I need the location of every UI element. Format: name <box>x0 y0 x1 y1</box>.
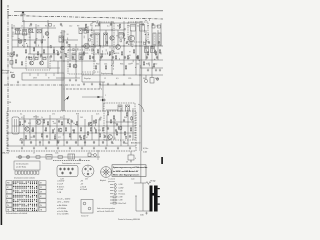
wire junction dots <box>12 28 153 134</box>
legend symbol 5 <box>110 196 123 199</box>
legend symbol 2 <box>110 187 124 190</box>
ZF sub-box coil L11 <box>118 105 122 111</box>
ground G4 <box>83 83 85 86</box>
IF transformer L2 <box>23 30 27 36</box>
ZM transistor T13 <box>58 128 62 132</box>
general note line 1 <box>97 207 115 210</box>
ground G2 <box>69 79 71 82</box>
fine component texture top band <box>12 18 161 69</box>
value list3 line 2 <box>57 208 66 210</box>
ZM label C79 <box>98 130 101 132</box>
label R38 <box>146 64 149 66</box>
box in M4 b <box>140 25 145 32</box>
svg-text:10: 10 <box>73 123 75 125</box>
battery bar 2 <box>154 186 158 212</box>
caption Potentiometer <box>62 162 80 165</box>
wire h2 <box>12 33 30 35</box>
ZM label R64 <box>124 117 127 119</box>
speaker label 08 <box>140 214 144 217</box>
svg-text:47: 47 <box>86 137 88 139</box>
switch table column line 4 <box>21 181 23 212</box>
ZM resistor R40 <box>32 127 33 132</box>
svg-text:12: 12 <box>104 78 106 80</box>
svg-text:ab Nr. -- 455kHz: ab Nr. -- 455kHz <box>57 201 69 204</box>
FM antenna A1 <box>21 11 26 22</box>
ZM capacitor C62 <box>39 141 41 144</box>
pushbutton key 1 <box>15 171 17 174</box>
label 0,5 <box>116 78 119 80</box>
wire v6 <box>47 20 49 68</box>
wire pair drop left <box>62 85 64 111</box>
ZM label R55 <box>60 117 63 119</box>
left column part a <box>10 53 13 57</box>
transistor T4 AF125 <box>84 43 90 49</box>
dial lamp wire <box>16 156 100 158</box>
label R21 <box>117 26 120 28</box>
svg-text:0,5: 0,5 <box>116 78 119 80</box>
value list2 line 1 <box>80 181 84 183</box>
wire v25 <box>157 30 159 60</box>
svg-text:im UKW- und AM-Betrieb 9V: im UKW- und AM-Betrieb 9V <box>113 170 139 173</box>
ZM filter block F1 <box>12 117 19 134</box>
resistor R10 <box>89 55 90 60</box>
speaker ground <box>145 212 147 215</box>
svg-text:C 0,1uF: C 0,1uF <box>57 183 63 185</box>
legend symbol 1 <box>110 184 123 187</box>
label L6 <box>53 26 55 28</box>
ZF resistor R71 <box>113 115 114 120</box>
ZM wire v16 <box>132 108 134 140</box>
ZF resistor R70 <box>107 111 108 116</box>
ZM transistor T14 <box>88 122 92 126</box>
value list1 line 3 <box>57 186 65 188</box>
value list2 line 3 <box>80 185 87 188</box>
ground G1 <box>17 81 19 84</box>
label Regelsp. <box>84 78 92 80</box>
label 1k <box>112 64 114 66</box>
dashed module box M2 <box>68 50 94 74</box>
ZM wire v3 <box>42 119 44 146</box>
ZM wire bus5 <box>7 145 136 147</box>
svg-text:el. 10uF: el. 10uF <box>57 189 63 191</box>
ZM resistor R49 <box>116 131 117 136</box>
label C52 <box>154 64 157 66</box>
wire h11 <box>100 59 163 61</box>
measurement note box <box>112 165 146 177</box>
tuning coil L4 <box>37 30 41 33</box>
svg-text:1k: 1k <box>112 64 114 66</box>
svg-text:gemessen: gemessen <box>108 181 115 183</box>
left column transistor T17 <box>11 74 15 78</box>
switch table column line 9 <box>32 181 34 212</box>
capacitor C8 <box>92 56 94 59</box>
top right 4ohm component <box>128 151 136 160</box>
capacitor C14 <box>156 56 158 59</box>
ZM resistor R89 <box>90 127 91 132</box>
IF transformer L7 <box>104 33 108 46</box>
switch contact row 7 dots <box>13 208 37 211</box>
svg-text:R55: R55 <box>60 117 63 119</box>
capacitor C16 <box>66 41 68 44</box>
svg-text:L: L <box>7 192 8 194</box>
switch contact row 6 dots <box>13 204 37 207</box>
speaker aux wire <box>136 196 144 212</box>
left column part b <box>10 61 13 65</box>
wire v14 <box>102 82 104 111</box>
svg-text:Werte ohne Signal gemessen: Werte ohne Signal gemessen <box>113 173 140 176</box>
wire v5 <box>41 28 43 61</box>
svg-text:1k: 1k <box>61 26 63 28</box>
svg-text:220: 220 <box>30 137 33 139</box>
ground G6 <box>99 83 101 86</box>
wire h8 <box>82 74 163 76</box>
ZM capacitor C90 <box>24 120 26 123</box>
label L9 <box>147 26 149 28</box>
label R41 <box>143 78 146 80</box>
ZM resistor R43 <box>65 127 66 132</box>
ZM capacitor C63 <box>48 141 50 144</box>
switch contact row 6 box-left <box>6 203 12 207</box>
value list2 line 2 <box>80 183 84 185</box>
ZM ground G33 <box>57 147 59 150</box>
svg-text:L6: L6 <box>53 26 55 28</box>
switch contact row 5 dots <box>13 199 37 202</box>
ZM label C77 <box>58 137 61 139</box>
ground G9 <box>123 83 125 86</box>
resistor R27 <box>125 65 126 70</box>
label Abstimmanzeige <box>2 69 10 74</box>
svg-text:1,40: 1,40 <box>131 179 134 181</box>
IF transformer L6 <box>95 33 99 46</box>
resistor R6 <box>57 51 58 56</box>
wire v26 <box>160 23 162 46</box>
wire h9 <box>82 81 105 83</box>
speaker label 140 <box>131 179 134 181</box>
ZF capacitor C82 <box>123 119 125 122</box>
wire h15 <box>56 77 80 79</box>
svg-text:Elko 10uF: Elko 10uF <box>119 203 127 205</box>
ZM transistor T16 <box>118 126 122 130</box>
ZM capacitor C68 <box>93 141 95 144</box>
svg-text:C66: C66 <box>53 123 56 125</box>
ZM label R60 <box>93 123 96 125</box>
ZM resistor R52 <box>43 119 44 124</box>
switch table outer <box>13 181 38 212</box>
ZM resistor R46 <box>87 131 88 136</box>
switch contact row 1 box-right <box>39 181 46 185</box>
switch table column line 2 <box>16 181 18 212</box>
label C8 <box>37 26 39 28</box>
main bus wire right <box>63 30 65 111</box>
series note line2 <box>57 201 69 204</box>
wire v18 <box>123 21 125 75</box>
label AF125 <box>83 52 88 55</box>
ZM ground G36 <box>93 147 95 150</box>
svg-text:R67: R67 <box>72 130 75 132</box>
label 14 mark <box>9 102 12 104</box>
pushbutton key 4 <box>24 171 26 174</box>
curve wire <box>138 104 144 112</box>
svg-text:C40: C40 <box>156 26 159 28</box>
ZM ground G38 <box>117 147 119 150</box>
switch table column line 10 <box>34 181 36 212</box>
ZM capacitor C97 <box>104 135 106 138</box>
ZF resistor R72 <box>126 112 127 117</box>
svg-text:R33: R33 <box>120 64 123 66</box>
svg-text:b 120mA: b 120mA <box>80 188 88 191</box>
switch contact row 2 box-left <box>6 185 12 189</box>
svg-text:Spannungsmessung mit Röhrenvol: Spannungsmessung mit Röhrenvoltm. <box>113 166 148 169</box>
dial ground <box>79 158 81 161</box>
switch contact row 5 box-left <box>6 199 12 203</box>
legend symbol 4 <box>110 193 126 196</box>
svg-text:AF125: AF125 <box>83 52 88 55</box>
small part near bus <box>49 24 52 27</box>
switch table column line 3 <box>19 181 21 212</box>
wire v0 <box>11 24 13 68</box>
small part right top a <box>152 25 155 28</box>
svg-text:GF 501: GF 501 <box>33 117 39 119</box>
svg-text:1: 1 <box>105 95 106 97</box>
resistor R21 <box>159 49 160 54</box>
switch table caption <box>6 212 27 215</box>
fine component texture ZM band <box>20 118 127 146</box>
svg-text:R52: R52 <box>28 123 31 125</box>
wire v10 <box>81 28 83 82</box>
switch contact row 7 box-right <box>39 207 46 211</box>
svg-text:4,5V=: 4,5V= <box>143 148 149 150</box>
ZM resistor R42 <box>52 129 53 134</box>
ZM capacitor C61 <box>30 141 32 144</box>
switch contact row 2 dots <box>13 186 37 189</box>
ZM capacitor C65 <box>66 141 68 144</box>
dotted strip above pots <box>53 160 90 162</box>
capacitor C17 <box>106 41 108 44</box>
wire v28 <box>33 54 35 61</box>
wire v9 <box>75 44 77 78</box>
resistor R9 <box>83 51 84 56</box>
svg-text:L: L <box>40 201 41 203</box>
wire v7 <box>53 47 55 61</box>
dial lamp La2 <box>26 155 29 158</box>
switch label box <box>14 161 40 170</box>
ZM capacitor C70 <box>111 141 113 144</box>
transistor T1 <box>18 40 22 44</box>
ZM label 1k <box>41 117 43 119</box>
label C48 <box>128 64 131 66</box>
ground G10 <box>131 83 133 86</box>
resistor R5 <box>53 49 54 54</box>
wire v22 <box>141 21 143 151</box>
pushbutton key 7 <box>34 171 36 174</box>
ZM capacitor C95 <box>79 135 81 138</box>
slim coil box 1 <box>153 33 156 45</box>
wire h6 <box>12 67 60 69</box>
legend symbol 6 <box>110 199 123 202</box>
label 0,1 <box>107 26 110 28</box>
transistor T7 <box>128 35 134 41</box>
resistor R26 <box>105 65 106 70</box>
ZM wire bus2 <box>12 125 136 127</box>
ground G5 <box>91 83 93 86</box>
legend symbol 3 <box>110 190 123 193</box>
wire v15 <box>105 30 107 46</box>
ZM wire v7 <box>70 119 72 140</box>
capacitor C9 <box>100 56 102 59</box>
ZM label 220 <box>30 137 33 139</box>
value list1 line 1 <box>57 181 65 183</box>
ZM capacitor C91 <box>33 135 35 138</box>
ZM label 0,1 <box>44 130 46 132</box>
ZM resistor R81 <box>25 135 26 140</box>
wire v11 <box>87 26 89 46</box>
speaker label 6ohm <box>151 181 156 183</box>
ZM wire v6 <box>63 115 65 146</box>
svg-text:mit Drucktasten: mit Drucktasten <box>16 163 28 166</box>
ZM label R67 <box>72 130 75 132</box>
ZM resistor R47 <box>95 129 96 134</box>
capacitor C7 <box>80 56 82 59</box>
ZF wire h b <box>106 121 134 123</box>
wire v4 <box>35 24 37 47</box>
svg-text:AF106: AF106 <box>95 25 100 28</box>
value list3 line 1 <box>57 205 67 207</box>
ZM resistor R41 <box>45 127 46 132</box>
IF transformer L10 <box>151 47 155 53</box>
ZM capacitor C93 <box>58 120 60 123</box>
AM-Oberteil caption <box>131 142 141 145</box>
IF transformer L8 <box>119 33 123 39</box>
wire h3 <box>12 39 46 41</box>
speaker top wire <box>134 182 146 184</box>
ZM wire bus1 <box>19 118 70 120</box>
resistor R4 <box>43 49 44 54</box>
svg-text:0,1: 0,1 <box>44 130 46 132</box>
label 10k <box>136 64 139 66</box>
svg-text:e Zw 10,7MHz: e Zw 10,7MHz <box>57 211 68 213</box>
wire h16 <box>78 27 88 29</box>
wire v27 <box>57 61 59 74</box>
dial switch box S2 <box>46 155 52 160</box>
dial lamp La1 <box>18 155 21 158</box>
capacitor C11 <box>124 56 126 59</box>
wire h4 <box>28 53 60 55</box>
switch contact row 4 box-left <box>6 194 12 198</box>
wire v8 <box>69 44 71 61</box>
switch contact row 4 box-right <box>39 194 46 198</box>
capacitor C3 <box>40 54 42 57</box>
small box in M1 b <box>35 58 38 60</box>
label R9 <box>77 26 79 28</box>
resistor R23 <box>21 61 22 66</box>
ZM capacitor C64 <box>57 141 59 144</box>
pot P2 label <box>85 178 89 180</box>
switch table column line 11 <box>36 181 38 212</box>
capacitor C15 <box>34 41 36 44</box>
ZM label 47 <box>86 137 88 139</box>
dashed module box M1 <box>26 57 50 70</box>
svg-text:AM-Oberteil: AM-Oberteil <box>131 142 141 145</box>
ZM label 1k <box>112 143 114 145</box>
series note line1 <box>57 198 70 201</box>
ZM capacitor C69 <box>102 141 104 144</box>
speaker bottom wire <box>143 210 150 212</box>
capacitor C2 <box>28 56 30 59</box>
ZM resistor R88 <box>83 135 84 140</box>
dial tiny parts right <box>88 150 98 160</box>
ZM capacitor C99 <box>129 135 131 138</box>
svg-text:5k: 5k <box>100 117 102 119</box>
ZM transistor T12 GF501 <box>36 120 41 125</box>
battery sym above banner <box>126 161 132 164</box>
svg-text:1,5W: 1,5W <box>119 200 123 202</box>
svg-text:R58: R58 <box>76 114 79 116</box>
switch table column line 6 <box>25 181 27 212</box>
pot P1 label <box>60 178 64 180</box>
page background <box>0 0 164 225</box>
legend symbol 7 <box>110 202 126 205</box>
potentiometer P2 rear view <box>82 165 94 177</box>
resistor R29 <box>153 63 154 68</box>
label C31 <box>127 26 130 28</box>
ZM label R69 <box>125 143 128 145</box>
resistor R1 <box>13 51 14 56</box>
ZM wire v8 <box>77 115 79 146</box>
ground G3 <box>75 79 77 82</box>
small box in M1 a <box>29 58 32 60</box>
ground G8 <box>115 83 117 86</box>
svg-text:0,5: 0,5 <box>21 117 23 119</box>
svg-text:Ferritant.: Ferritant. <box>119 193 126 196</box>
label 4,7k <box>155 78 158 80</box>
svg-text:0,5W: 0,5W <box>119 184 123 186</box>
label R30 <box>96 64 99 66</box>
battery side tick 2 <box>158 196 160 197</box>
frame horizontal dash-dot y89 right <box>66 88 102 90</box>
wire h14 <box>62 39 78 41</box>
electrolytic capacitor C90 <box>144 75 147 83</box>
resistor R7 <box>65 53 66 58</box>
label 12 <box>104 78 106 80</box>
svg-text:0,1: 0,1 <box>107 26 110 28</box>
ZM resistor R44 <box>73 129 74 134</box>
svg-text:4,7k: 4,7k <box>96 114 99 116</box>
box in M4 a <box>131 25 136 32</box>
svg-text:L9: L9 <box>147 26 149 28</box>
ZM label C74 <box>113 123 116 125</box>
svg-text:an der Skala: an der Skala <box>16 167 26 169</box>
svg-text:R60: R60 <box>93 123 96 125</box>
switch table column line 1 <box>14 181 16 212</box>
ZM label GF501 <box>33 117 39 119</box>
pushbutton key 8 <box>37 171 39 174</box>
general note line 2 <box>97 210 114 213</box>
ZM capacitor C66 <box>75 141 77 144</box>
label 0,1 <box>29 26 32 28</box>
pushbutton key 2 <box>18 171 20 174</box>
resistor R13 <box>109 51 110 56</box>
arrow mark <box>64 96 69 101</box>
value list1 line 2 <box>57 183 63 185</box>
svg-text:C48: C48 <box>128 64 131 66</box>
ZM capacitor C96 <box>93 120 95 123</box>
ZM wire v0 <box>23 115 25 146</box>
ZM capacitor C94 <box>71 120 73 123</box>
switch contact row 2 box-right <box>39 185 46 189</box>
label R33 <box>120 64 123 66</box>
main bus wire left <box>61 30 63 111</box>
svg-text:C74: C74 <box>113 123 116 125</box>
